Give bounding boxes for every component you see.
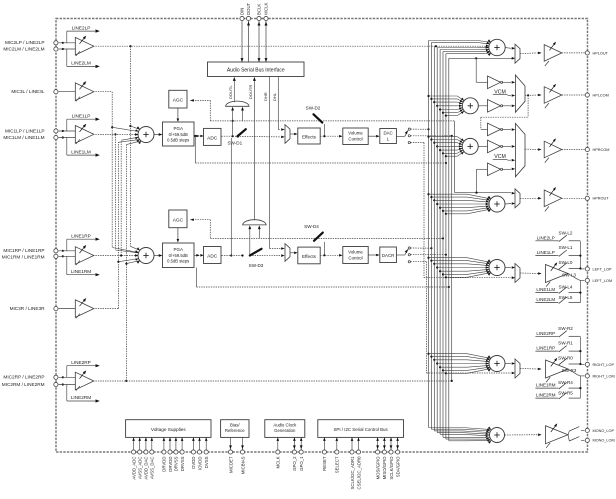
svg-text:DRVDD: DRVDD — [168, 457, 173, 472]
svg-text:MOSI/GPIO: MOSI/GPIO — [375, 456, 380, 480]
svg-text:LINE1RM: LINE1RM — [71, 269, 91, 274]
svg-text:AVSS_DAC: AVSS_DAC — [150, 457, 155, 480]
svg-text:GPO_1: GPO_1 — [299, 456, 304, 471]
svg-text:SW-L4: SW-L4 — [559, 285, 573, 290]
svg-text:AGC: AGC — [173, 217, 184, 223]
svg-text:DRVSS: DRVSS — [180, 456, 185, 471]
svg-text:Effects: Effects — [302, 254, 317, 259]
svg-text:RESET: RESET — [322, 456, 327, 471]
svg-text:SELECT: SELECT — [335, 456, 340, 473]
svg-text:Generation: Generation — [274, 428, 296, 433]
svg-text:0/+59.5dB: 0/+59.5dB — [169, 132, 188, 137]
svg-text:MIC3R / LINE3R: MIC3R / LINE3R — [10, 306, 46, 311]
svg-text:LEFT_LOP: LEFT_LOP — [593, 267, 612, 271]
svg-text:0.5dB steps: 0.5dB steps — [167, 259, 189, 264]
svg-text:WCLK: WCLK — [264, 2, 269, 15]
svg-text:MIC3L / LINE3L: MIC3L / LINE3L — [11, 89, 45, 94]
svg-text:MIC1LM / LINE1LM: MIC1LM / LINE1LM — [3, 135, 44, 140]
svg-text:DRVDD: DRVDD — [162, 457, 167, 472]
svg-text:MICBIAS: MICBIAS — [240, 456, 245, 474]
svg-text:LINE1LM: LINE1LM — [536, 287, 555, 292]
svg-text:GPO_2: GPO_2 — [292, 456, 297, 471]
svg-text:MISO/GPIO: MISO/GPIO — [382, 456, 387, 480]
svg-text:Audio Serial Bus Interface: Audio Serial Bus Interface — [227, 67, 285, 73]
svg-text:LINE1RP: LINE1RP — [71, 233, 91, 238]
svg-text:SDA/GPIO: SDA/GPIO — [395, 456, 400, 477]
svg-text:DIN: DIN — [240, 8, 245, 15]
svg-text:LINE2RM: LINE2RM — [71, 395, 91, 400]
svg-text:LINE1LM: LINE1LM — [71, 149, 91, 154]
svg-text:MICDET: MICDET — [228, 456, 233, 473]
svg-text:RIGHT_LOP: RIGHT_LOP — [593, 363, 615, 367]
svg-text:Reference: Reference — [225, 428, 245, 433]
svg-text:MONO_LOM: MONO_LOM — [593, 439, 615, 443]
svg-text:MIC2LP / LINE2LP: MIC2LP / LINE2LP — [5, 40, 45, 45]
svg-text:LINE2RP: LINE2RP — [71, 360, 91, 365]
svg-text:DACR: DACR — [382, 253, 394, 258]
svg-text:PGA: PGA — [173, 126, 183, 131]
svg-text:LINE1LP: LINE1LP — [537, 250, 555, 255]
svg-text:DAC: DAC — [383, 130, 392, 135]
svg-text:LINE1RP: LINE1RP — [536, 346, 555, 351]
svg-text:MIC2RP / LINE2RP: MIC2RP / LINE2RP — [3, 375, 44, 380]
svg-text:DVDD: DVDD — [191, 457, 196, 469]
svg-text:MIC1RP / LINE1RP: MIC1RP / LINE1RP — [3, 248, 44, 253]
svg-text:SW-D1: SW-D1 — [227, 140, 242, 145]
svg-text:AGC: AGC — [173, 98, 184, 104]
svg-text:AVDD_ADC: AVDD_ADC — [131, 457, 136, 480]
svg-text:Voltage Supplies: Voltage Supplies — [151, 427, 187, 432]
svg-text:Volume: Volume — [348, 249, 363, 254]
svg-text:SW-R5: SW-R5 — [558, 391, 573, 396]
svg-text:SW-D3: SW-D3 — [249, 263, 264, 268]
svg-text:LINE2LP: LINE2LP — [537, 235, 555, 240]
svg-text:SW-R0: SW-R0 — [558, 355, 573, 360]
svg-text:HPLCOM: HPLCOM — [593, 93, 609, 97]
svg-text:HPRCOM: HPRCOM — [593, 148, 610, 152]
svg-text:AVDD_DAC: AVDD_DAC — [144, 457, 149, 480]
svg-text:LINE2LP: LINE2LP — [72, 25, 91, 30]
svg-text:SCLK/GPIO: SCLK/GPIO — [389, 456, 394, 480]
svg-text:0.5dB steps: 0.5dB steps — [167, 138, 189, 143]
svg-text:SW-R2: SW-R2 — [558, 326, 573, 331]
svg-text:DVSS: DVSS — [204, 456, 209, 468]
svg-text:ADC: ADC — [207, 135, 218, 141]
svg-text:MIC1LP / LINE1LP: MIC1LP / LINE1LP — [5, 128, 45, 133]
svg-text:SW-L2: SW-L2 — [559, 230, 573, 235]
svg-text:DRVSS: DRVSS — [174, 456, 179, 471]
svg-text:PGA: PGA — [173, 247, 183, 252]
svg-text:BCLK: BCLK — [257, 4, 262, 15]
svg-text:AVSS_ADC: AVSS_ADC — [138, 457, 143, 480]
svg-text:MIC1RM / LINE1RM: MIC1RM / LINE1RM — [2, 255, 45, 260]
svg-text:Control: Control — [348, 255, 362, 260]
svg-text:SW-L1: SW-L1 — [559, 245, 573, 250]
svg-text:MIC2RM / LINE2RM: MIC2RM / LINE2RM — [2, 382, 45, 387]
svg-text:SW-R1: SW-R1 — [558, 341, 573, 346]
svg-text:LINE2LM: LINE2LM — [71, 61, 91, 66]
svg-text:DHL: DHL — [272, 92, 277, 101]
svg-text:Audio Clock: Audio Clock — [273, 422, 297, 427]
svg-text:DOUTR: DOUTR — [248, 85, 253, 99]
svg-text:SCLK/I2C_ADR1: SCLK/I2C_ADR1 — [350, 456, 355, 490]
svg-text:CSEL/I2C_ADR0: CSEL/I2C_ADR0 — [356, 456, 361, 490]
svg-text:LINE1LP: LINE1LP — [72, 113, 91, 118]
svg-text:SW-L3: SW-L3 — [562, 273, 576, 278]
svg-text:MONO_LOP: MONO_LOP — [593, 429, 615, 433]
svg-text:LINE2LM: LINE2LM — [536, 297, 555, 302]
svg-text:0/+59.5dB: 0/+59.5dB — [169, 253, 188, 258]
svg-text:ADC: ADC — [207, 253, 218, 259]
svg-text:LEFT_LOM: LEFT_LOM — [593, 279, 613, 283]
svg-text:HPLOUT: HPLOUT — [593, 51, 609, 55]
svg-text:HPROUT: HPROUT — [593, 197, 610, 201]
svg-text:Volume: Volume — [348, 131, 363, 136]
svg-text:SW-D2: SW-D2 — [306, 105, 321, 110]
svg-text:SW-L5: SW-L5 — [559, 295, 573, 300]
svg-text:Control: Control — [348, 137, 362, 142]
svg-text:DOUTL: DOUTL — [228, 85, 233, 99]
svg-text:LINE2RP: LINE2RP — [536, 331, 555, 336]
svg-text:SW-L0: SW-L0 — [559, 260, 573, 265]
svg-text:DOUT: DOUT — [246, 2, 251, 15]
svg-text:MIC2LM / LINE2LM: MIC2LM / LINE2LM — [3, 47, 44, 52]
svg-text:IOVDD: IOVDD — [197, 457, 202, 471]
svg-text:LINE2RM: LINE2RM — [536, 393, 556, 398]
svg-text:LINE1RM: LINE1RM — [536, 383, 556, 388]
svg-text:SW-R4: SW-R4 — [558, 380, 573, 385]
svg-text:RIGHT_LOM: RIGHT_LOM — [593, 374, 615, 378]
svg-text:Bias/: Bias/ — [230, 422, 240, 427]
svg-text:MCLK: MCLK — [276, 456, 281, 468]
svg-text:SW-R3: SW-R3 — [562, 368, 577, 373]
svg-text:DHR: DHR — [263, 92, 268, 101]
svg-text:SW-D4: SW-D4 — [304, 224, 319, 229]
svg-text:SPI / I2C Serial Control Bus: SPI / I2C Serial Control Bus — [334, 427, 389, 432]
svg-text:Effects: Effects — [302, 135, 317, 140]
